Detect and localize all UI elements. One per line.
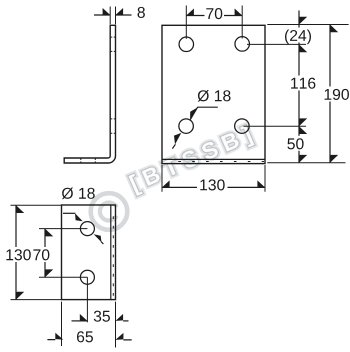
dimension 130 left arrow top <box>16 205 24 213</box>
diameter label front view <box>198 90 231 102</box>
hole bottom left <box>179 119 194 134</box>
dimension 70 left text <box>33 247 51 262</box>
dimension 130 front arrow left <box>162 180 170 187</box>
dimension 8 arrow left <box>103 8 111 15</box>
dimension 130 left extension lines <box>11 205 62 299</box>
dimension 130 front extension lines <box>162 165 265 192</box>
right extension line bottom edge <box>267 162 345 164</box>
dimension 35 arrow right <box>116 314 124 321</box>
bottom view plate outline <box>62 205 116 300</box>
dimension 130 front arrow right <box>257 180 265 187</box>
dimension 70 top text <box>205 7 225 21</box>
dimension 70 left extension lines <box>39 229 87 278</box>
dimension 35 arrow left <box>80 314 88 321</box>
dimension 70 left line <box>44 229 46 278</box>
arrow 24 top <box>299 17 307 25</box>
side view hidden hole dashes lower hole <box>111 119 116 133</box>
diameter leader bottom view lower tail <box>101 242 103 244</box>
side view hidden hole dashes upper hole <box>111 37 116 51</box>
dimension 70 top line <box>186 15 242 17</box>
dimension 116 text <box>289 76 317 91</box>
arrow 50 bottom <box>299 155 307 163</box>
dimension line 190 <box>329 25 331 163</box>
arrow 24 bottom 116 top <box>299 44 307 52</box>
dimension 35 text <box>94 311 110 322</box>
dimension 130 front text <box>197 178 228 192</box>
right extension line bottom holes <box>244 125 307 127</box>
diameter label bottom view <box>62 187 95 199</box>
front view plate outline <box>162 25 265 163</box>
watermark text BTSSB outline <box>129 125 255 196</box>
arrow 190 top <box>330 25 338 33</box>
dimension 70 top extension lines <box>186 6 242 39</box>
watermark copyright ring <box>91 193 128 230</box>
diameter leader arrow lower <box>174 133 181 145</box>
dimension 65 arrow left <box>55 333 63 340</box>
dimension 130 left line <box>15 205 17 299</box>
diameter leader bottom view <box>63 212 75 214</box>
arrow 116 bottom <box>299 118 307 126</box>
dimension 65 text <box>77 331 93 342</box>
dimension 35 hole center extension <box>86 277 88 322</box>
bottom view hole upper <box>80 222 94 236</box>
bottom view hole lower <box>80 270 94 284</box>
side view hidden hole dashes base leg <box>81 158 96 162</box>
dimension 70 top arrow left <box>186 9 194 16</box>
right extension line top holes <box>247 43 306 45</box>
dimension 70 left arrow bottom <box>45 269 53 277</box>
dimension 130 left arrow bottom <box>16 292 24 300</box>
diameter leader arrow upper <box>190 108 197 121</box>
dimension 70 top arrow right <box>235 9 243 16</box>
dimension 65 left extension <box>61 302 63 346</box>
dimension 190 text <box>323 87 350 102</box>
hole top left <box>179 37 194 52</box>
side view L-profile outline <box>64 25 115 163</box>
bottom view fold dashed line <box>112 216 114 299</box>
dimension 65 arrow right <box>115 333 123 340</box>
arrow 50 top <box>299 126 307 134</box>
watermark text BTSSB halo <box>129 125 255 196</box>
arrow 190 bottom <box>330 155 338 163</box>
diameter leader bottom view arrow lower <box>94 234 102 242</box>
front view fold line <box>162 158 265 160</box>
right extension line top edge <box>267 24 348 26</box>
hole top right <box>235 37 250 52</box>
hole bottom right <box>235 119 250 134</box>
dimension 24 text <box>283 28 313 43</box>
dimension 35 right tail <box>123 320 128 322</box>
dimension 65 line tails <box>47 339 131 341</box>
dimension 130 left text <box>5 247 32 262</box>
dimension 70 left arrow top <box>45 229 53 237</box>
dimension 130 front line <box>162 186 265 188</box>
dimension 8 arrow right <box>116 8 124 15</box>
dimension 35 line <box>72 320 88 322</box>
dimension 8 line <box>94 14 132 16</box>
diameter leader front view <box>190 107 217 119</box>
dimension 50 text <box>286 136 305 151</box>
diameter leader lower tail <box>172 144 175 148</box>
dimension 8 text <box>138 7 145 18</box>
front view fold dashed line <box>178 161 264 163</box>
bottom view fold line <box>110 205 112 300</box>
dimension 8 extension lines <box>110 7 115 25</box>
diameter leader bottom view arrow upper <box>75 213 83 221</box>
dimension line 24-116-50 <box>298 11 300 163</box>
dimension 35 right extension <box>115 302 117 348</box>
